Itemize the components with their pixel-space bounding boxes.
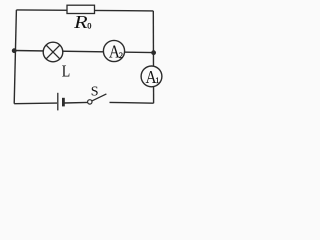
- svg-text:1: 1: [155, 76, 159, 85]
- svg-text:S: S: [91, 85, 99, 100]
- svg-text:2: 2: [119, 51, 123, 60]
- svg-text:0: 0: [87, 21, 91, 30]
- svg-text:R: R: [73, 12, 88, 32]
- svg-text:L: L: [62, 61, 71, 80]
